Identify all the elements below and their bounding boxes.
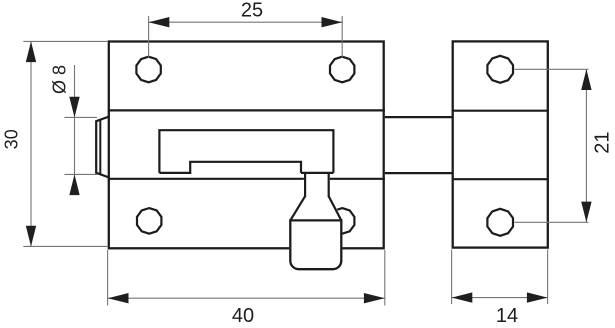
svg-text:21: 21 (592, 131, 614, 153)
arrow 40 right (364, 293, 385, 303)
svg-text:25: 25 (241, 0, 263, 22)
arrow dia8 down (69, 97, 79, 118)
dim 40 extension line right (384, 250, 386, 306)
screw hole bottom-left (137, 208, 161, 234)
arrow dia8 up (69, 174, 79, 195)
keeper plate (453, 41, 548, 247)
dim 25 extension line right (341, 16, 343, 58)
bolt rod bottom (385, 172, 453, 174)
arrow 25 left (149, 17, 170, 27)
arrow 25 right (322, 17, 343, 27)
dim 21 extension line top (515, 68, 589, 70)
dim 30 extension line bottom (23, 245, 107, 247)
dim 14 extension line left (451, 250, 453, 305)
dim 14 line (452, 297, 548, 299)
arrow 40 left (108, 293, 129, 303)
dim dia8 extension line top (65, 116, 98, 118)
barrel top line (108, 109, 385, 111)
svg-text:14: 14 (496, 305, 518, 327)
dim 25 extension line left (148, 16, 150, 58)
arrow 30 up (26, 41, 36, 62)
keeper hole top (487, 56, 513, 83)
arrow 21 up (581, 69, 591, 90)
arrow 14 right (527, 292, 548, 302)
dim dia8 extension line bottom (65, 173, 98, 175)
keeper barrel top line (452, 110, 549, 112)
screw hole top-right (330, 57, 354, 83)
knob funnel left side (290, 196, 305, 220)
main plate (109, 42, 384, 249)
arrow 30 down (26, 226, 36, 247)
svg-text:Ø 8: Ø 8 (50, 65, 70, 94)
knob silhouette mask (289, 174, 342, 270)
keeper barrel bottom line (452, 178, 549, 180)
slot bottom left segment (159, 172, 190, 174)
left end cap inner rim (99, 120, 101, 175)
dim 40 line (108, 297, 385, 299)
dim 21 line (585, 69, 587, 222)
knob stem left line (304, 173, 306, 197)
dim 25 line (149, 21, 343, 23)
bolt rod top (385, 116, 453, 118)
screw hole top-left (136, 57, 160, 83)
screw hole bottom-right (behind knob) (330, 208, 354, 234)
slot bottom right segment (301, 172, 333, 174)
arrow 14 left (452, 292, 473, 302)
dim 40 extension line left (107, 250, 109, 306)
knob funnel right side (329, 196, 342, 220)
keeper hole bottom (487, 209, 513, 236)
dim 21 extension line bottom (515, 221, 589, 223)
arrow 21 down (581, 202, 591, 223)
slot opening (159, 130, 333, 173)
left end cap (96, 117, 109, 178)
dim dia8 line (74, 65, 76, 194)
svg-text:40: 40 (232, 305, 254, 327)
knob stem right line (328, 173, 330, 197)
dim 30 line (30, 41, 32, 246)
dim 30 extension line top (23, 40, 107, 42)
bolt end in slot (190, 162, 301, 174)
barrel bottom line (108, 178, 385, 180)
dim 14 extension line right (547, 250, 549, 305)
knob body (290, 220, 341, 269)
svg-text:30: 30 (2, 129, 22, 149)
